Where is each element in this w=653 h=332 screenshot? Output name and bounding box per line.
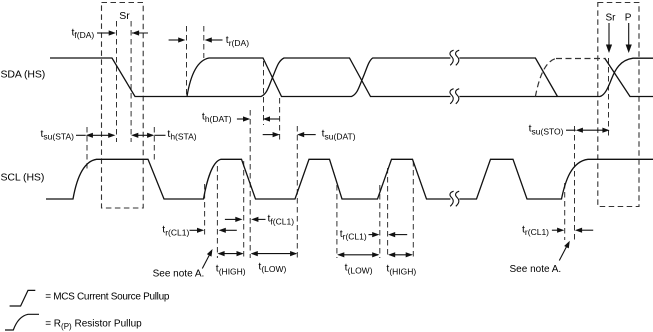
svg-text:tsu(STO): tsu(STO) [529,123,564,137]
svg-text:tr(DA): tr(DA) [226,34,249,48]
svg-text:See note A.: See note A. [510,264,562,275]
svg-text:tr(CL1): tr(CL1) [162,224,189,238]
svg-text:See note A.: See note A. [153,268,205,279]
svg-text:Sr: Sr [606,13,617,24]
svg-text:t(HIGH): t(HIGH) [386,263,416,277]
svg-text:Sr: Sr [119,10,130,22]
svg-text:th(STA): th(STA) [167,128,196,142]
svg-text:P: P [625,13,632,24]
svg-text:th(DAT): th(DAT) [202,110,232,124]
svg-text:tr(CL1): tr(CL1) [522,223,549,237]
svg-text:tf(DA): tf(DA) [72,26,95,40]
svg-text:t(LOW): t(LOW) [258,260,286,274]
svg-text:= R(P) Resistor Pullup: = R(P) Resistor Pullup [45,318,142,331]
svg-text:= MCS Current Source Pullup: = MCS Current Source Pullup [45,292,170,303]
svg-text:t(LOW): t(LOW) [345,262,373,276]
svg-text:SDA (HS): SDA (HS) [1,69,46,81]
svg-text:tsu(DAT): tsu(DAT) [322,128,356,142]
svg-text:SCL (HS): SCL (HS) [1,172,45,184]
svg-text:tr(CL1): tr(CL1) [340,228,367,242]
svg-text:t(HIGH): t(HIGH) [216,263,246,277]
svg-text:tsu(STA): tsu(STA) [41,128,75,142]
svg-text:tf(CL1): tf(CL1) [268,213,295,227]
